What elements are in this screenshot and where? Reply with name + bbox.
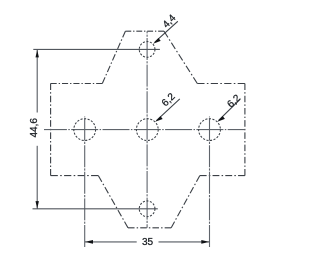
- extension line through top hole (44.6 top): [33, 48, 160, 50]
- leader 6,2 center: [156, 99, 179, 121]
- arrowhead left: [85, 240, 93, 244]
- svg-text:35: 35: [142, 237, 154, 248]
- svg-text:6,2: 6,2: [160, 91, 178, 109]
- arrowhead right: [201, 240, 209, 244]
- vertical centerline through top/center/bottom holes: [146, 31, 148, 228]
- outline: bottom-right diagonal: [171, 176, 200, 228]
- outline: top edge: [125, 30, 164, 32]
- outline: band bottom-right edge: [200, 175, 245, 177]
- horizontal centerline through middle holes: [44, 129, 245, 131]
- leader 6,2 right: [219, 99, 241, 120]
- dimension line 44.6 vertical: [36, 50, 38, 113]
- svg-text:44,6: 44,6: [29, 118, 40, 138]
- extension line through bottom hole (44.6 bottom): [33, 208, 158, 210]
- outline: bottom-left diagonal: [98, 176, 128, 228]
- outline: band top-left edge: [51, 83, 103, 85]
- bottom hole 4.4: [139, 201, 155, 217]
- outline: top-left diagonal: [102, 31, 125, 83]
- vertical centerline / extension line left hole: [84, 117, 86, 248]
- dimension line 35 horizontal (broken for label): [85, 241, 137, 243]
- outline: bottom edge: [128, 227, 171, 229]
- top hole 4.4: [139, 42, 155, 58]
- vertical centerline / extension line right hole: [209, 117, 211, 248]
- outline: band top-right edge: [197, 83, 245, 85]
- leader 4,4: [155, 21, 178, 42]
- center hole 6.2: [136, 119, 158, 141]
- outline: left edge: [50, 84, 52, 176]
- right hole 6.2: [199, 119, 221, 141]
- arrowhead down: [36, 201, 39, 209]
- svg-text:4,4: 4,4: [161, 13, 179, 31]
- outline: top-right diagonal: [164, 31, 197, 83]
- left hole 6.2: [74, 119, 96, 141]
- outline: right edge: [244, 84, 246, 176]
- svg-text:6,2: 6,2: [225, 93, 243, 111]
- outline: band bottom-left edge: [51, 175, 99, 177]
- arrowhead up: [36, 50, 39, 58]
